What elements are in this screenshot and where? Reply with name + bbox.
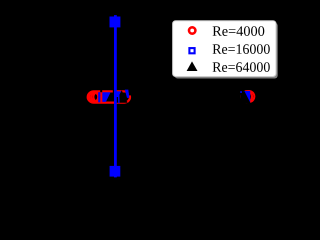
blue square marker piece B (filled square cut by black triangle) [102, 92, 110, 102]
black gap in top red line left of blue line [113, 90, 114, 93]
blue filled square marker (bottom of line) [110, 166, 121, 177]
legend shadow [175, 23, 278, 79]
legend marker: blue open square [189, 48, 194, 53]
legend marker: black filled triangle [187, 61, 198, 71]
blue square remnant: diagonal band (cut by black triangle) [125, 90, 130, 98]
blue vertical line [114, 15, 117, 177]
legend marker: red open circle [189, 27, 195, 33]
black filled triangle marker Re=64000 (middle pyramid) [116, 90, 128, 103]
legend text Re=16000 [213, 44, 270, 54]
blue square marker piece C (tapered band right of line) [116, 91, 121, 97]
black cover over stadium right arc upper part [129, 92, 132, 95]
black cover over stadium top-right arc [125, 89, 131, 92]
legend box [173, 21, 276, 77]
blue square top-left corner dot (right group) [240, 91, 242, 93]
legend text Re=4000 [213, 26, 265, 36]
black filled triangle marker Re=64000 (right group) [238, 91, 251, 103]
red open-circle markers Re=4000 (right group rings) [241, 91, 254, 102]
red ring arc sliver (visible between blue squares) [101, 96, 103, 101]
black gap in top red line (between square markers) [100, 90, 102, 92]
legend text Re=64000 [213, 62, 270, 72]
blue square marker piece A (right edge band of occluded square) [98, 92, 100, 102]
blue filled square marker (top of line) [110, 17, 121, 28]
red open-circle markers Re=4000 (left thick C arcs) [88, 92, 104, 103]
black cover over right-group ring top-left arcs [240, 89, 244, 101]
blue square sliver tail along triangle edge [118, 94, 120, 104]
blue filled square marker Re=16000 (right group) [244, 91, 250, 102]
red circle markers envelope Re=4000 (middle cluster stadium outline) [88, 91, 130, 102]
